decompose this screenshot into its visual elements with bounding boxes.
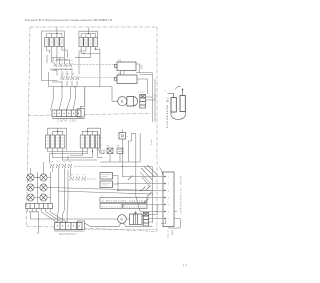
label plates small: [100, 204, 147, 209]
svg-text:ТВ приемника: ТВ приемника: [166, 98, 170, 128]
title caption: [25, 18, 112, 22]
wire stubs between contact rows: [62, 71, 72, 76]
wire bus above FU5-FU8: [79, 28, 98, 38]
svg-text:(рез.): (рез.): [150, 140, 152, 146]
contact row SF2 (lower): [61, 74, 79, 80]
svg-text:К механизму подъема: К механизму подъема: [102, 200, 146, 202]
svg-text:в: в: [101, 195, 102, 197]
svg-text:ЭКСПЛУАТ.: ЭКСПЛУАТ.: [59, 233, 77, 236]
contact KH2 box: [117, 146, 124, 154]
wire feeder left of FU group: [42, 31, 58, 81]
control dash line from SF3: [75, 166, 101, 168]
wires around M2: [126, 205, 157, 222]
wires below FU5-FU8: [75, 47, 100, 87]
wires rows to bus: [49, 72, 78, 87]
vertical label left of XP1: [166, 98, 170, 128]
svg-text:Рисунок В.3 Электрическая схем: Рисунок В.3 Электрическая схема панели С…: [25, 18, 112, 22]
lamp HL6: [40, 185, 47, 201]
wire step buses below groups: [49, 152, 97, 164]
dash line right of XT2: [85, 229, 157, 231]
control dash line to K2: [81, 77, 115, 79]
relay KV1 small box with dot: [119, 133, 128, 140]
svg-text:1к: 1к: [100, 138, 102, 140]
plug XP1 (right outside): [165, 86, 185, 119]
wires SF3 drops: [52, 169, 70, 216]
vertical label right of XS1: [179, 176, 182, 215]
lamp HL1: [27, 174, 34, 181]
wires into XS1: [117, 167, 165, 224]
terminal block XT1: [52, 110, 81, 117]
vertical label (rez): [150, 140, 152, 146]
lamp HL3: [27, 194, 34, 201]
contact row SF4: [70, 175, 86, 181]
svg-text:Контроль: Контроль: [102, 206, 122, 208]
label under XT2: [59, 233, 77, 236]
svg-text:24В: 24В: [141, 64, 144, 69]
label under XT1: [57, 119, 77, 123]
wire bus above FU9-FU12: [48, 128, 67, 150]
wires lamp columns: [26, 162, 51, 204]
fuse group FU5-FU8 (top-middle): [79, 38, 98, 47]
tiny labels right of FU13-16: [100, 138, 102, 147]
page number: [183, 263, 188, 268]
wire long risers x135.8 x140.2: [136, 133, 140, 196]
wires under lamp block: [28, 209, 118, 234]
tall connector XS1: [163, 172, 174, 227]
tiny label above ladder: [139, 92, 145, 94]
control dash line to K1: [74, 64, 115, 66]
relay K1 box: [114, 58, 136, 70]
lamp HL2: [27, 184, 34, 191]
label plate big: [100, 198, 147, 203]
svg-text:380В: 380В: [171, 230, 173, 236]
connector ladder X1: [140, 95, 146, 109]
svg-text:2к: 2к: [100, 145, 102, 147]
fuse group FU9-FU12 (lower-left): [45, 135, 64, 148]
XS1 pin labels: [168, 176, 170, 220]
svg-text:17: 17: [183, 263, 188, 268]
wire bus under SF1: [50, 69, 73, 70]
wires above XT2 from upper area: [58, 215, 68, 223]
panel mid divider: [28, 114, 150, 116]
wire XT2 to right with hop: [84, 223, 152, 226]
wires below FU13-FU16: [70, 148, 100, 158]
fuse group FU13-FU16 (lower-middle): [80, 135, 99, 148]
auxiliary box right of XT2: [55, 221, 85, 231]
svg-text:СНП0-280: СНП0-280: [57, 119, 77, 123]
wire horizontal bus y86.6: [49, 86, 113, 87]
label right of K1: [141, 64, 144, 69]
relay K2 box: [114, 71, 137, 83]
svg-text:от сети: от сети: [167, 230, 169, 238]
wires below FU9-FU12: [48, 148, 63, 158]
svg-text:Управление: Управление: [125, 206, 147, 208]
pump body right of motor: [127, 97, 138, 107]
wire diagonals into terminal strip: [51, 87, 76, 110]
svg-text:КН: КН: [107, 146, 110, 148]
lamp HL5: [40, 184, 47, 191]
auxiliary box right of XT1: [52, 87, 85, 119]
wire horizontals y162 y166.5: [100, 154, 152, 167]
motor M2 circle: [118, 215, 127, 224]
wire K1 outputs: [121, 64, 153, 79]
wire ladder to risers: [145, 94, 155, 100]
wire motor left: [112, 87, 118, 102]
wire bus above FU13-FU16: [82, 128, 100, 150]
wire long horizontals y190.5 y194: [51, 188, 153, 195]
wires below FU1-FU4: [47, 47, 65, 63]
contact row SF1 (upper): [54, 61, 73, 67]
lamp HL4: [40, 174, 47, 181]
wires bottom right exits: [161, 212, 180, 229]
contact KH1 with cross: [107, 146, 114, 154]
wire step feeds above row1: [52, 58, 70, 64]
svg-text:а б в: а б в: [139, 92, 145, 94]
svg-text:Цепи сигнализации: Цепи сигнализации: [179, 176, 182, 215]
terminal block XT2: [55, 223, 83, 230]
motor M1 circle: [118, 97, 127, 106]
svg-text:В: В: [121, 217, 123, 221]
wire zigzag x131: [129, 134, 136, 163]
slash contacts mid-right: [128, 176, 152, 204]
control dash from SF4: [87, 178, 97, 180]
rotated labels bottom right: [167, 230, 173, 238]
contact row SF3: [50, 162, 71, 168]
fuse group FU1-FU4 (top-left): [45, 38, 64, 47]
relay boxes P1 P2: [100, 173, 113, 188]
tiny text above plate: [101, 195, 102, 197]
wire left drop: [47, 55, 62, 82]
wire left drop x97.5: [98, 132, 104, 158]
wires from P1 P2: [113, 176, 119, 191]
wire bus above FU1-FU4: [42, 28, 68, 58]
wire diagonal bundle: [140, 165, 158, 187]
small contact left: [101, 150, 104, 154]
XS1 pin dots: [164, 176, 165, 219]
connector ladder X2: [143, 213, 148, 227]
terminal block under lamps: [26, 204, 53, 209]
panel border dash-dot frame: [27, 27, 158, 232]
wire right risers: [148, 73, 156, 122]
svg-text:к: к: [127, 136, 128, 138]
gear box right of M2: [130, 212, 143, 225]
wire KV1 drop: [122, 130, 123, 168]
